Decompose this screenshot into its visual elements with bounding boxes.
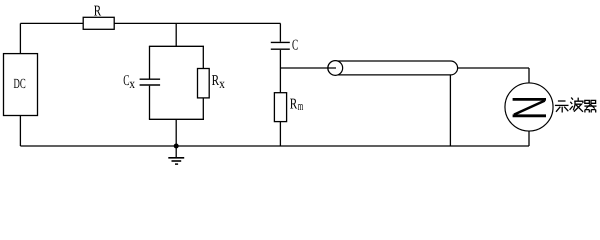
svg-text:x: x [129, 76, 135, 91]
svg-text:R: R [290, 97, 298, 113]
svg-text:R: R [212, 73, 220, 89]
svg-text:DC: DC [14, 77, 26, 92]
svg-text:m: m [298, 99, 304, 113]
svg-text:x: x [219, 76, 225, 91]
svg-text:R: R [94, 3, 101, 19]
svg-text:C: C [292, 38, 298, 54]
